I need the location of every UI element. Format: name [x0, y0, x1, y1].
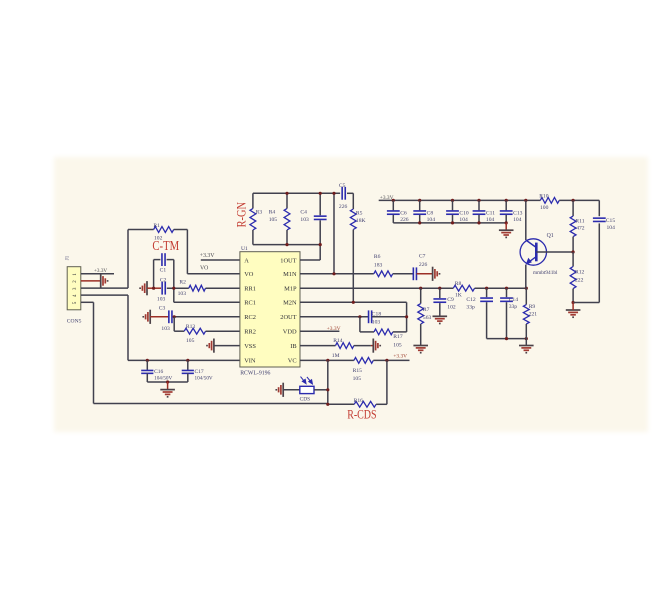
svg-text:M1N: M1N: [283, 271, 297, 278]
svg-text:C14: C14: [509, 297, 519, 303]
svg-text:C7: C7: [419, 254, 426, 260]
svg-text:R8: R8: [455, 281, 462, 287]
svg-text:RCWL-9196: RCWL-9196: [240, 371, 270, 377]
svg-text:105: 105: [353, 376, 362, 382]
svg-text:5: 5: [72, 301, 78, 304]
svg-text:103: 103: [161, 326, 170, 332]
svg-text:C10: C10: [459, 210, 469, 216]
svg-text:C6: C6: [400, 210, 407, 216]
svg-text:CON5: CON5: [67, 318, 82, 324]
svg-text:A: A: [244, 257, 249, 264]
svg-text:C11: C11: [486, 210, 495, 216]
svg-text:C3: C3: [159, 306, 166, 312]
svg-text:33p: 33p: [509, 304, 518, 310]
svg-text:RR1: RR1: [244, 286, 256, 293]
svg-text:C13: C13: [513, 210, 523, 216]
svg-text:105: 105: [269, 217, 278, 223]
svg-text:2OUT: 2OUT: [280, 314, 296, 321]
svg-text:CDS: CDS: [300, 396, 311, 402]
svg-text:221: 221: [529, 312, 538, 318]
svg-text:R13: R13: [186, 324, 196, 330]
svg-text:104: 104: [607, 225, 616, 231]
svg-text:C2: C2: [160, 277, 167, 283]
svg-text:3: 3: [72, 287, 78, 290]
svg-text:R17: R17: [393, 334, 403, 340]
svg-text:R6: R6: [374, 254, 381, 260]
svg-text:VSS: VSS: [244, 343, 256, 350]
svg-text:M2N: M2N: [283, 300, 297, 307]
svg-text:103: 103: [372, 319, 381, 325]
svg-text:VO: VO: [200, 266, 208, 272]
svg-text:103: 103: [300, 217, 309, 223]
svg-text:R14: R14: [333, 338, 343, 344]
svg-text:VDD: VDD: [283, 329, 297, 336]
svg-text:105: 105: [186, 338, 195, 344]
svg-text:R4: R4: [269, 209, 276, 215]
svg-text:R12: R12: [575, 270, 585, 276]
svg-text:+3.3V: +3.3V: [380, 195, 394, 201]
svg-text:U1: U1: [241, 246, 248, 252]
svg-text:C9: C9: [447, 297, 454, 303]
svg-text:4: 4: [72, 294, 78, 297]
svg-text:C1: C1: [160, 268, 167, 274]
svg-text:R15: R15: [353, 368, 363, 374]
svg-text:226: 226: [419, 262, 428, 268]
svg-text:RC1: RC1: [244, 300, 256, 307]
svg-text:C17: C17: [195, 369, 204, 375]
svg-text:1: 1: [72, 273, 78, 276]
svg-text:IB: IB: [290, 343, 296, 350]
svg-text:103: 103: [157, 297, 166, 303]
svg-text:R-GN: R-GN: [234, 202, 248, 227]
svg-text:R-CDS: R-CDS: [347, 407, 376, 421]
svg-text:C5: C5: [339, 183, 346, 189]
svg-text:VO: VO: [244, 271, 254, 278]
svg-text:+3.3V: +3.3V: [393, 353, 407, 359]
svg-text:102: 102: [447, 305, 456, 311]
svg-text:105: 105: [393, 343, 402, 349]
svg-text:R7: R7: [423, 307, 430, 313]
svg-text:+3.3V: +3.3V: [94, 268, 107, 274]
svg-text:Q1: Q1: [547, 233, 554, 239]
svg-text:C8: C8: [427, 210, 434, 216]
svg-text:R10: R10: [539, 194, 549, 200]
svg-text:226: 226: [400, 217, 409, 223]
svg-text:M1P: M1P: [284, 286, 297, 293]
svg-text:RR2: RR2: [244, 329, 256, 336]
svg-text:1M: 1M: [332, 353, 340, 359]
svg-text:C4: C4: [300, 209, 307, 215]
svg-text:100: 100: [540, 205, 549, 211]
svg-text:33p: 33p: [466, 305, 475, 311]
svg-text:104/50V: 104/50V: [195, 375, 213, 381]
svg-text:104: 104: [486, 217, 495, 223]
svg-text:104: 104: [513, 217, 522, 223]
svg-text:104: 104: [459, 217, 468, 223]
svg-text:R16: R16: [354, 398, 364, 404]
svg-text:R5: R5: [356, 211, 363, 217]
svg-text:1OUT: 1OUT: [280, 257, 296, 264]
svg-text:C12: C12: [466, 297, 476, 303]
svg-text:R11: R11: [575, 218, 584, 224]
svg-text:C16: C16: [154, 369, 163, 375]
svg-text:R1: R1: [153, 223, 160, 229]
svg-text:472: 472: [576, 225, 585, 231]
svg-text:RC2: RC2: [244, 314, 256, 321]
svg-text:183: 183: [374, 262, 383, 268]
svg-text:226: 226: [339, 204, 348, 210]
svg-text:+3.3V: +3.3V: [327, 326, 341, 332]
svg-text:mmbt941bl: mmbt941bl: [533, 270, 558, 276]
svg-text:103: 103: [178, 291, 187, 297]
svg-text:C18: C18: [372, 312, 382, 318]
svg-text:104/50V: 104/50V: [154, 375, 172, 381]
svg-text:C-TM: C-TM: [152, 238, 179, 253]
svg-text:222: 222: [575, 278, 584, 284]
svg-text:R3: R3: [256, 209, 263, 215]
svg-text:J1: J1: [65, 255, 70, 260]
svg-text:R9: R9: [529, 304, 536, 310]
svg-text:VIN: VIN: [244, 358, 256, 365]
svg-text:563: 563: [423, 315, 432, 321]
svg-text:2: 2: [72, 280, 78, 283]
svg-text:18K: 18K: [356, 218, 366, 224]
svg-text:+3.3V: +3.3V: [200, 253, 216, 259]
svg-text:VC: VC: [288, 358, 297, 365]
svg-text:C15: C15: [606, 218, 616, 224]
svg-text:R2: R2: [179, 280, 186, 286]
svg-text:104: 104: [427, 217, 436, 223]
svg-text:1K: 1K: [455, 292, 462, 298]
